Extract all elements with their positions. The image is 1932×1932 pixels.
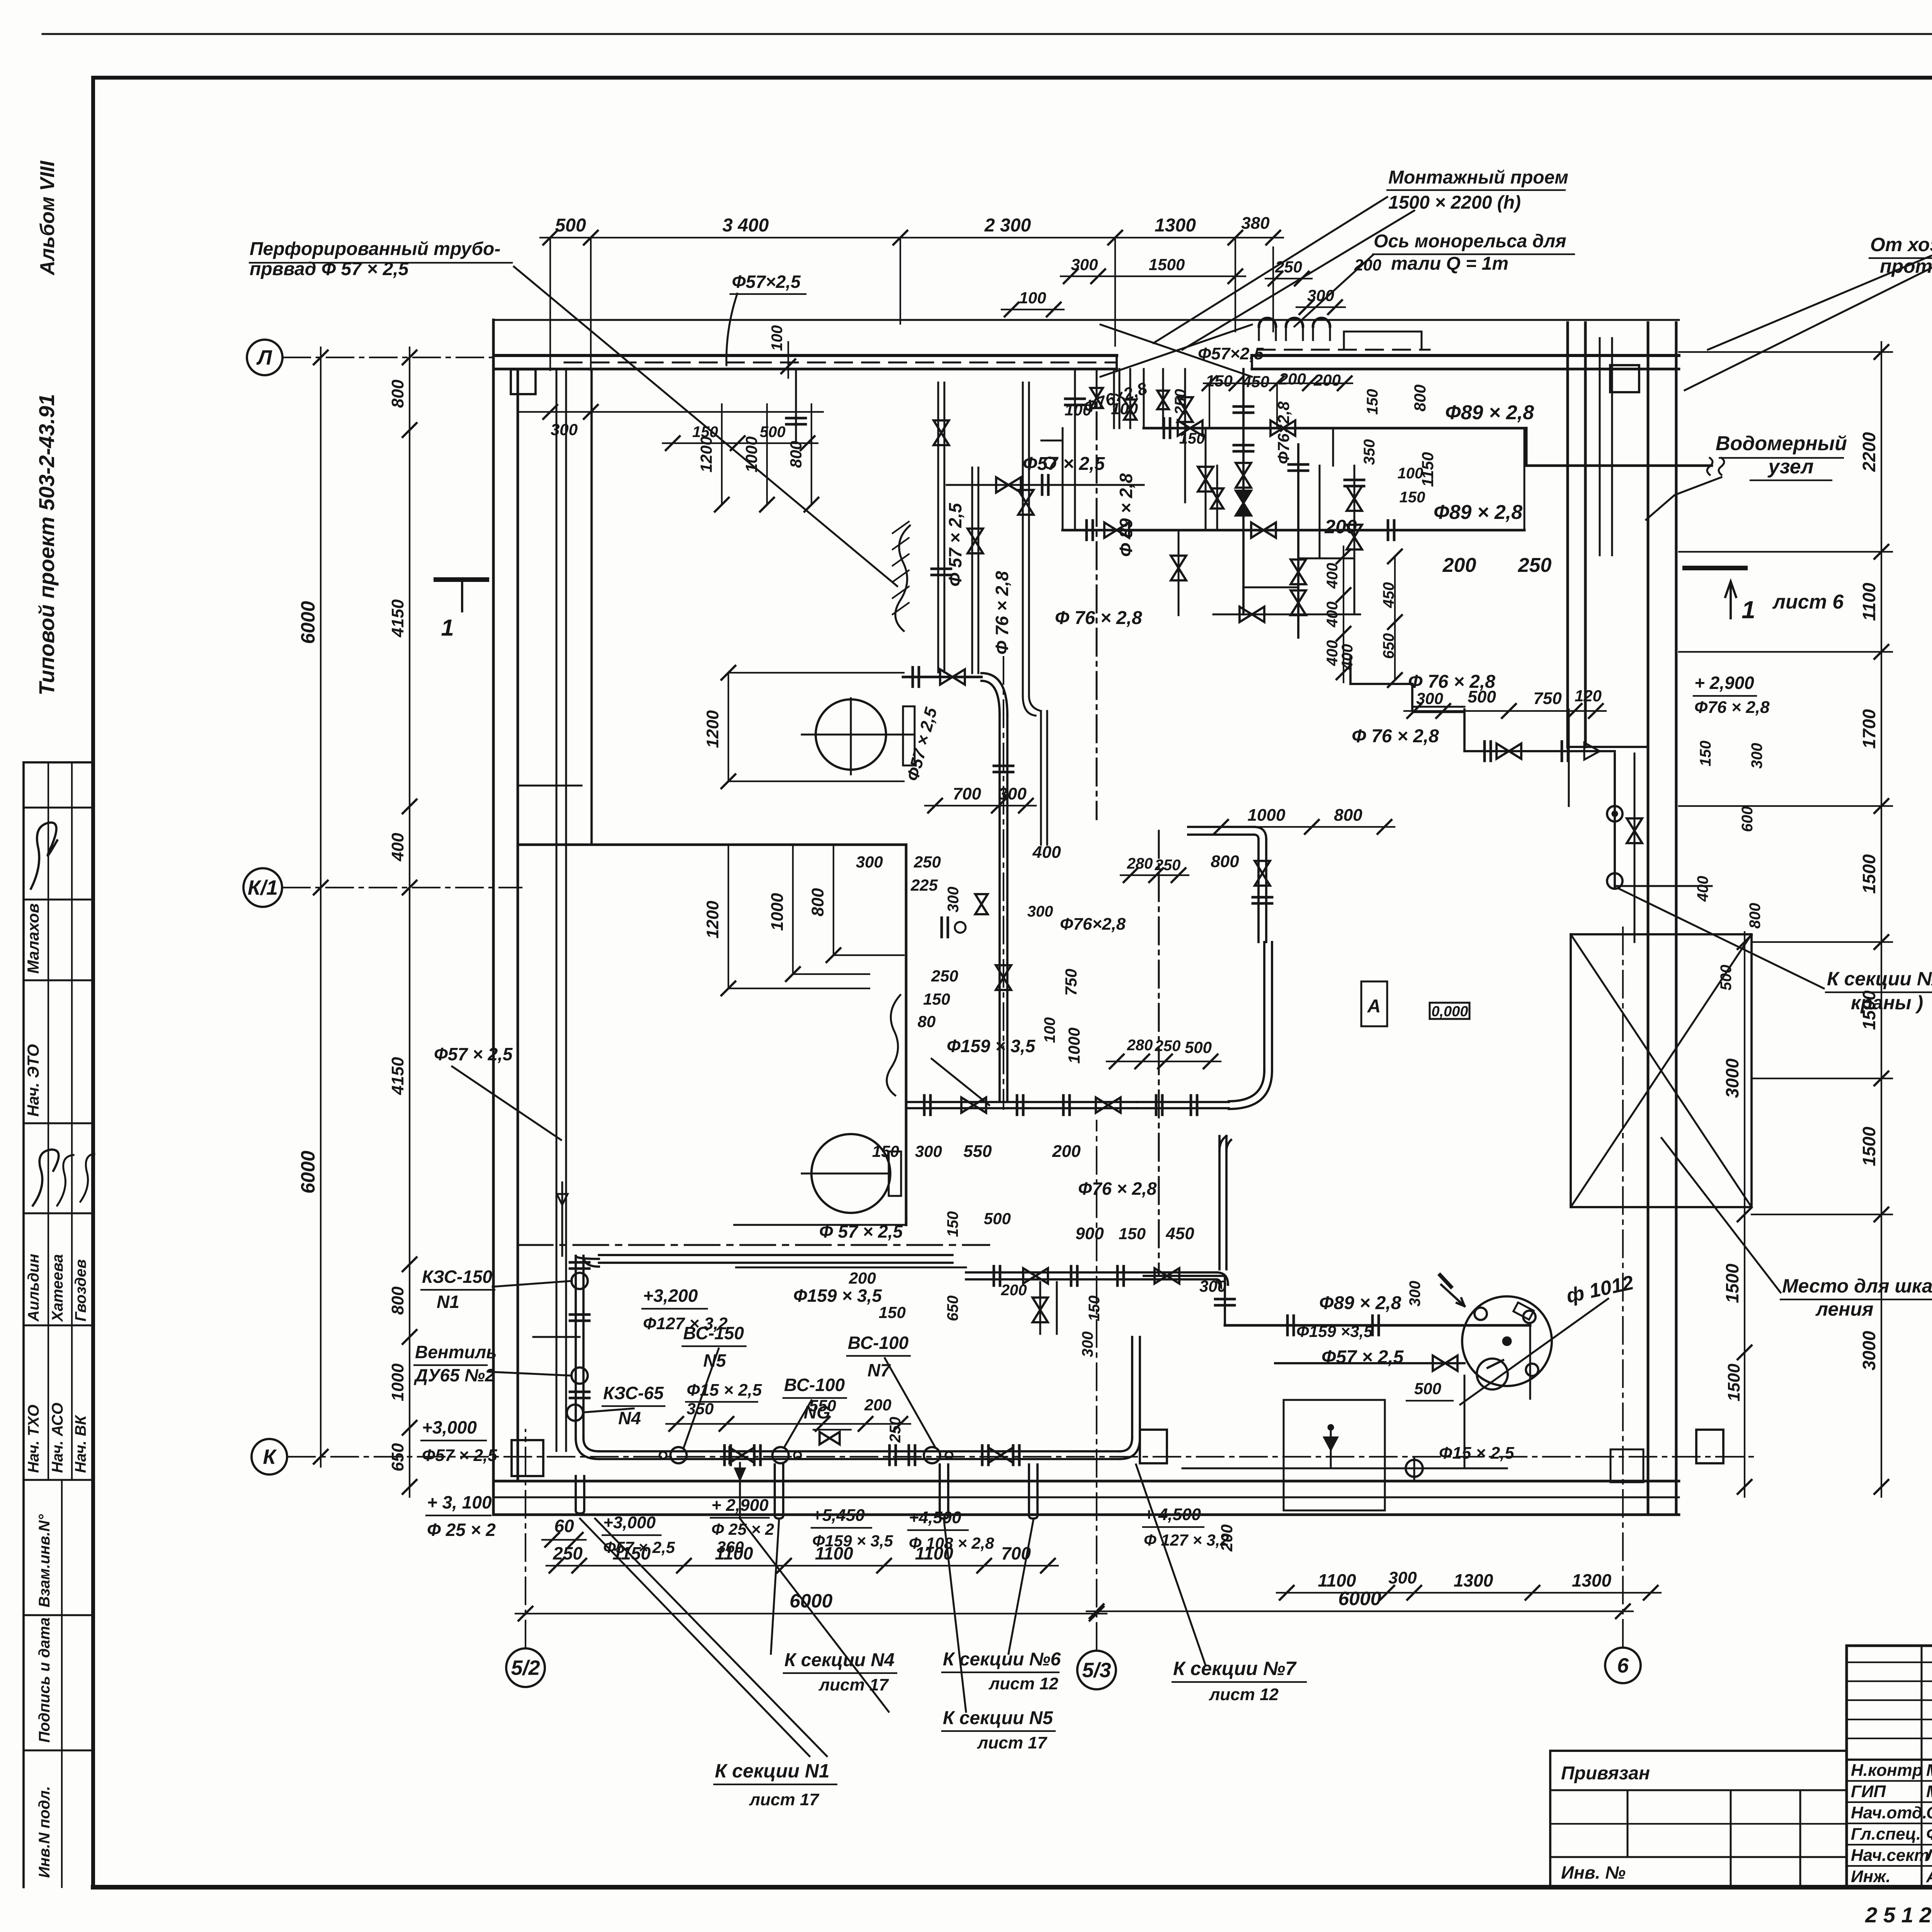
svg-text:Ф159 × 3,5: Ф159 × 3,5: [947, 1036, 1036, 1056]
svg-text:500: 500: [1718, 965, 1735, 991]
svg-text:1200: 1200: [697, 436, 715, 472]
svg-text:150: 150: [1697, 741, 1714, 767]
leader Ф57 to pipe: [726, 294, 737, 365]
valve: [996, 477, 1021, 493]
corridor risers: [1599, 338, 1601, 555]
svg-text:600: 600: [1739, 806, 1756, 832]
svg-text:Нач. ВК: Нач. ВК: [72, 1415, 89, 1473]
svg-text:200: 200: [1442, 554, 1476, 577]
svg-text:300: 300: [1199, 1277, 1226, 1295]
svg-text:300: 300: [856, 853, 883, 871]
leader ось монорельса: [1294, 255, 1373, 327]
valve: [1347, 486, 1362, 511]
svg-text:Взам.инв.N°: Взам.инв.N°: [36, 1514, 53, 1607]
svg-text:650: 650: [388, 1443, 407, 1471]
svg-text:300: 300: [1388, 1568, 1417, 1587]
svg-text:Ф 76 × 2,8: Ф 76 × 2,8: [1055, 608, 1142, 628]
svg-text:Ф 57 × 2,5: Ф 57 × 2,5: [819, 1221, 903, 1242]
svg-text:2200: 2200: [1859, 432, 1879, 472]
svg-text:Ф 76 × 2,8: Ф 76 × 2,8: [992, 571, 1012, 655]
svg-text:650: 650: [1380, 633, 1397, 659]
svg-text:80: 80: [918, 1012, 936, 1031]
svg-text:Монтажный проем: Монтажный проем: [1388, 167, 1568, 188]
valve: [1032, 1298, 1048, 1322]
svg-text:+5,450: +5,450: [812, 1506, 865, 1525]
crossed rectangle шкафы: [1571, 934, 1752, 1207]
left dimension chains: [320, 347, 321, 1467]
dim box around circle A: [728, 672, 904, 673]
перфорированный трубопровод along top wall: [565, 362, 1117, 364]
svg-text:Хатеева: Хатеева: [49, 1254, 66, 1322]
pipe Ф89 top run: [1144, 427, 1526, 430]
pipe: [1218, 1136, 1221, 1269]
монтажный проем cross: [1100, 325, 1252, 377]
svg-text:+ 3, 100: + 3, 100: [427, 1492, 492, 1512]
svg-text:узел: узел: [1767, 456, 1813, 478]
svg-text:лист 17: лист 17: [977, 1733, 1048, 1752]
svg-text:150: 150: [1206, 372, 1233, 390]
svg-text:400: 400: [1324, 640, 1341, 667]
svg-text:400: 400: [1032, 843, 1061, 862]
dim box below circle A: [728, 845, 729, 988]
bottom dimension chains: [546, 1565, 1058, 1566]
svg-text:380: 380: [1241, 214, 1270, 233]
vertical perforated pipe pair: [556, 369, 558, 1451]
mid wall водомерный узел: [1566, 323, 1569, 747]
svg-text:300: 300: [1079, 1332, 1096, 1357]
svg-text:200: 200: [1324, 516, 1357, 537]
valve: [1096, 1097, 1121, 1113]
svg-text:Водомерный: Водомерный: [1716, 432, 1847, 455]
svg-text:350: 350: [1361, 439, 1378, 465]
svg-text:К секции №8 (пожарные: К секции №8 (пожарные: [1827, 968, 1932, 990]
svg-text:250: 250: [1275, 258, 1302, 276]
signature scribbles 2: [33, 1150, 59, 1206]
valve: [1124, 400, 1136, 420]
svg-text:750: 750: [1062, 969, 1080, 996]
svg-text:К секции №7: К секции №7: [1173, 1658, 1297, 1679]
svg-text:300: 300: [551, 420, 578, 439]
svg-text:Н.контр: Н.контр: [1851, 1761, 1923, 1780]
svg-text:Ф57 × 2,5: Ф57 × 2,5: [422, 1446, 497, 1465]
pipe Ф89 bottom right: [1225, 1324, 1530, 1327]
valve: [961, 1097, 986, 1113]
svg-text:700: 700: [953, 784, 981, 803]
svg-text:1500: 1500: [1149, 255, 1185, 274]
svg-text:К/1: К/1: [248, 876, 278, 899]
valve: [1251, 522, 1276, 538]
svg-text:1000: 1000: [768, 893, 787, 931]
svg-text:ДУ65 №2: ДУ65 №2: [413, 1365, 495, 1385]
svg-text:1000: 1000: [1065, 1027, 1083, 1063]
svg-text:лист 6: лист 6: [1772, 591, 1844, 613]
svg-text:200: 200: [1052, 1142, 1081, 1161]
flow meter Ф1012: [1462, 1296, 1552, 1386]
leader ф1012: [1460, 1299, 1608, 1405]
svg-text:К секции N1: К секции N1: [715, 1760, 830, 1782]
svg-text:Ф89 × 2,8: Ф89 × 2,8: [1319, 1293, 1401, 1313]
valve: [1236, 491, 1251, 515]
leader место для шкафов: [1662, 1138, 1781, 1293]
svg-text:Ф57 × 2,5: Ф57 × 2,5: [1023, 454, 1105, 474]
svg-text:Ф76 × 2,8: Ф76 × 2,8: [1078, 1179, 1157, 1199]
left wall: [492, 320, 495, 1515]
svg-text:Альбом VIII: Альбом VIII: [36, 160, 59, 276]
valve: [1177, 397, 1193, 422]
svg-text:5/2: 5/2: [511, 1656, 540, 1679]
svg-text:Перфорированный трубо-: Перфорированный трубо-: [250, 239, 500, 259]
cross connections: [1062, 428, 1064, 530]
pipe: [971, 468, 973, 673]
svg-text:Ф57 × 2,5: Ф57 × 2,5: [1321, 1347, 1404, 1367]
svg-text:225: 225: [910, 876, 938, 894]
svg-text:Ф76×2,8: Ф76×2,8: [1060, 915, 1126, 934]
svg-text:400: 400: [1324, 563, 1341, 589]
svg-text:Мороз: Мороз: [1926, 1761, 1932, 1780]
risers near left wall: [561, 1182, 563, 1256]
valve: [1291, 560, 1306, 584]
wall pilasters: [512, 1440, 543, 1476]
zigzag to 300 500 750 row: [1411, 684, 1413, 709]
svg-text:Вентиль: Вентиль: [415, 1342, 497, 1362]
svg-text:6: 6: [1617, 1654, 1629, 1677]
title block: [1847, 1646, 1932, 1887]
right wall: [1647, 323, 1650, 1515]
valve: [1433, 1355, 1458, 1371]
svg-text:1300: 1300: [1155, 215, 1196, 236]
axis mark Л: [247, 340, 282, 375]
svg-text:1: 1: [441, 615, 454, 641]
section mark 1 right лист 6: [1685, 566, 1745, 570]
valve: [940, 669, 965, 685]
svg-text:Малахов: Малахов: [24, 903, 42, 974]
frame top: [93, 76, 1932, 80]
svg-text:550: 550: [963, 1142, 992, 1161]
elbow up at right: [1120, 1437, 1140, 1459]
pipe: [1188, 826, 1254, 828]
pipe: [937, 383, 939, 672]
riser stub to section: [576, 1476, 584, 1514]
pipe: [1040, 711, 1042, 845]
svg-text:КЗС-150: КЗС-150: [422, 1267, 492, 1287]
equipment circle B: [811, 1134, 890, 1213]
pipe: [1022, 383, 1024, 696]
svg-text:3000: 3000: [1722, 1058, 1742, 1098]
svg-text:Ф 57 × 2,5: Ф 57 × 2,5: [945, 502, 965, 587]
svg-text:100: 100: [1065, 401, 1092, 419]
svg-text:1200: 1200: [703, 710, 722, 748]
pipe: [1257, 839, 1260, 942]
svg-text:Ф57 × 2,5: Ф57 × 2,5: [603, 1538, 675, 1556]
svg-text:150: 150: [1364, 389, 1381, 415]
svg-text:Ф 89 × 2,8: Ф 89 × 2,8: [1116, 473, 1136, 557]
svg-text:120: 120: [1575, 687, 1602, 705]
svg-text:Подпись и дата: Подпись и дата: [36, 1617, 53, 1743]
riser stub to section: [940, 1464, 948, 1519]
valve: [988, 1447, 1013, 1463]
svg-text:Ф 25 × 2: Ф 25 × 2: [427, 1520, 496, 1540]
dim row 350 550 200: [666, 1423, 910, 1425]
svg-text:300: 300: [945, 887, 962, 913]
svg-text:4150: 4150: [388, 599, 407, 638]
svg-text:Осовский: Осовский: [1926, 1803, 1932, 1822]
svg-text:150: 150: [1400, 489, 1425, 506]
svg-text:150: 150: [1119, 1225, 1146, 1243]
svg-text:500: 500: [1468, 687, 1496, 706]
pipe: [998, 715, 1001, 1100]
dim labels top-left: [518, 411, 823, 413]
valve: [1155, 1268, 1179, 1284]
svg-text:1500: 1500: [1725, 1364, 1743, 1401]
svg-text:Ф159 × 3,5: Ф159 × 3,5: [812, 1532, 893, 1550]
svg-text:800: 800: [1334, 806, 1362, 825]
svg-text:Аванесова: Аванесова: [1926, 1867, 1932, 1886]
svg-text:250: 250: [913, 853, 941, 871]
svg-text:1000: 1000: [742, 436, 760, 472]
svg-text:650: 650: [944, 1296, 961, 1321]
equipment circle A: [816, 699, 886, 770]
svg-text:60: 60: [554, 1516, 574, 1536]
svg-text:750: 750: [1533, 689, 1562, 708]
svg-text:Гвоздев: Гвоздев: [72, 1259, 89, 1321]
riser stub to section: [775, 1464, 783, 1519]
extra cluster symbols: [1065, 398, 1085, 400]
svg-text:Л: Л: [256, 346, 272, 369]
svg-text:Ф 76 × 2,8: Ф 76 × 2,8: [1352, 726, 1439, 747]
svg-text:Меленчук: Меленчук: [1926, 1782, 1932, 1801]
hatched cloud: [895, 526, 910, 631]
svg-text:500: 500: [760, 423, 786, 440]
svg-text:800: 800: [388, 379, 407, 408]
svg-text:800: 800: [1211, 852, 1239, 871]
valve: [730, 1447, 754, 1463]
right dimension chains: [1881, 342, 1882, 1497]
valve: [1240, 607, 1264, 622]
valve: [1255, 861, 1270, 886]
valve: [1497, 743, 1521, 759]
svg-text:6000: 6000: [297, 601, 319, 644]
pipe: [1113, 369, 1115, 428]
svg-text:прввад Ф 57 × 2,5: прввад Ф 57 × 2,5: [250, 259, 409, 279]
svg-text:500: 500: [555, 215, 586, 236]
svg-text:150: 150: [944, 1211, 961, 1237]
svg-text:N1: N1: [437, 1292, 459, 1312]
svg-text:ВС-100: ВС-100: [784, 1375, 845, 1395]
monorail hooks: [1259, 318, 1276, 327]
svg-text:100: 100: [1041, 1017, 1058, 1043]
svg-text:К секции №6: К секции №6: [943, 1649, 1061, 1670]
leaders от хоз водопровода: [1708, 247, 1932, 350]
svg-text:2 300: 2 300: [984, 215, 1031, 236]
valve: [1236, 463, 1251, 488]
pipe: [575, 1256, 577, 1438]
svg-text:800: 800: [1411, 384, 1429, 412]
svg-text:К: К: [263, 1445, 277, 1468]
svg-text:280: 280: [1127, 855, 1153, 872]
svg-text:400: 400: [388, 833, 407, 862]
valve: [1347, 525, 1362, 549]
svg-text:280: 280: [1127, 1037, 1153, 1054]
valve: [1291, 590, 1306, 615]
valve: [934, 420, 949, 445]
frame left: [91, 78, 95, 1887]
svg-text:250: 250: [1155, 857, 1181, 874]
svg-text:100: 100: [1019, 289, 1046, 307]
svg-text:800: 800: [1747, 903, 1764, 929]
svg-text:Инж.: Инж.: [1851, 1867, 1891, 1886]
svg-text:300: 300: [915, 1142, 942, 1160]
left stamp tables: [24, 762, 93, 1887]
svg-text:450: 450: [1165, 1224, 1194, 1243]
svg-text:3000: 3000: [1859, 1331, 1879, 1371]
svg-text:100: 100: [1111, 400, 1138, 418]
top dimension chain: [540, 237, 1283, 238]
svg-text:Ф15 × 2,5: Ф15 × 2,5: [1439, 1444, 1514, 1463]
dim rows pump room right: [925, 805, 1036, 806]
leader к секции №8: [1619, 889, 1824, 988]
svg-text:Инв.N подл.: Инв.N подл.: [36, 1786, 53, 1878]
svg-text:6000: 6000: [1338, 1588, 1381, 1609]
svg-text:Ф 127 × 3,2: Ф 127 × 3,2: [1144, 1531, 1229, 1549]
pump room walls: [518, 785, 582, 787]
svg-text:+ 4,500: + 4,500: [1144, 1505, 1201, 1524]
svg-text:От хоз. производственного: От хоз. производственного: [1870, 234, 1932, 255]
svg-text:150: 150: [1086, 1296, 1103, 1321]
thin run Ф57 center: [736, 1267, 966, 1269]
svg-text:250: 250: [1155, 1037, 1181, 1054]
valve: [968, 529, 983, 553]
svg-text:800: 800: [808, 888, 827, 917]
svg-text:лист 17: лист 17: [749, 1790, 820, 1809]
svg-text:1200: 1200: [703, 901, 722, 939]
svg-text:КЗС-65: КЗС-65: [603, 1383, 664, 1403]
valve: [996, 965, 1011, 990]
svg-text:Место для шкафов эл. управ-: Место для шкафов эл. управ-: [1782, 1275, 1932, 1297]
svg-text:1700: 1700: [1859, 709, 1879, 749]
svg-text:1000: 1000: [1248, 806, 1286, 825]
valve: [975, 894, 988, 914]
svg-text:Типовой проект 503-2-43.91: Типовой проект 503-2-43.91: [34, 394, 59, 696]
water meter ВС devices: [670, 1447, 687, 1463]
svg-text:1100: 1100: [1859, 583, 1879, 621]
svg-text:6000: 6000: [789, 1590, 832, 1612]
svg-text:100: 100: [1398, 465, 1423, 482]
svg-text:4150: 4150: [388, 1057, 407, 1095]
svg-text:Ф89 × 2,8: Ф89 × 2,8: [1445, 401, 1534, 424]
svg-text:К секции N5: К секции N5: [943, 1708, 1053, 1728]
monorail dashed box: [1258, 349, 1430, 351]
svg-text:Ф76 × 2,8: Ф76 × 2,8: [1694, 698, 1770, 717]
valve: [1198, 467, 1213, 492]
svg-text:1: 1: [1742, 596, 1755, 624]
svg-text:1300: 1300: [1572, 1570, 1612, 1590]
svg-text:Аильдин: Аильдин: [25, 1254, 42, 1322]
svg-text:500: 500: [984, 1209, 1011, 1228]
frame bottom: [93, 1885, 1932, 1889]
svg-text:150: 150: [872, 1142, 899, 1160]
svg-text:Нач. ЭТО: Нач. ЭТО: [24, 1044, 42, 1117]
axis mark К: [252, 1439, 287, 1475]
valve: [1157, 391, 1169, 409]
svg-text:250: 250: [931, 967, 958, 985]
top wall: [495, 319, 1679, 321]
svg-text:лист 12: лист 12: [988, 1674, 1059, 1693]
tick line 150 450 200 200: [1204, 383, 1352, 384]
svg-text:лист 17: лист 17: [818, 1675, 889, 1694]
КЗС devices on vertical pipe: [571, 1273, 588, 1289]
pipe: [1412, 706, 1464, 708]
svg-text:500: 500: [1185, 1038, 1212, 1056]
svg-text:150: 150: [1179, 430, 1205, 447]
svg-text:Ф89 × 2,8: Ф89 × 2,8: [1434, 501, 1522, 524]
leader водомерный узел: [1646, 477, 1721, 520]
pipe: [599, 1450, 1120, 1452]
svg-text:Ф57×2,5: Ф57×2,5: [732, 272, 801, 292]
svg-text:400: 400: [1339, 644, 1356, 670]
svg-text:ВС-100: ВС-100: [848, 1333, 909, 1353]
svg-text:К секции N4: К секции N4: [784, 1650, 895, 1670]
svg-text:300: 300: [1071, 255, 1098, 274]
pipe: [1137, 1101, 1229, 1103]
leader Ф57 bottom left: [452, 1066, 561, 1140]
svg-text:Ф 108 × 2,8: Ф 108 × 2,8: [909, 1534, 994, 1552]
svg-text:150: 150: [879, 1303, 906, 1321]
svg-text:Фомина: Фомина: [1926, 1825, 1932, 1844]
svg-text:Ф 25 × 2: Ф 25 × 2: [711, 1520, 774, 1538]
leader перфорированный: [514, 267, 897, 586]
svg-text:450: 450: [1380, 582, 1397, 609]
svg-text:Ф57 × 2,5: Ф57 × 2,5: [434, 1044, 513, 1064]
valve: [1171, 556, 1186, 580]
svg-text:200: 200: [1313, 371, 1341, 389]
svg-text:Нач. АСО: Нач. АСО: [49, 1403, 66, 1473]
svg-text:300: 300: [1748, 743, 1765, 769]
sheet top edge: [43, 33, 1932, 35]
svg-text:450: 450: [1242, 372, 1269, 391]
svg-text:+3,000: +3,000: [422, 1417, 477, 1437]
svg-text:1300: 1300: [1454, 1570, 1493, 1590]
svg-text:противопожарного водопровода: противопожарного водопровода: [1880, 255, 1932, 277]
svg-text:250: 250: [887, 1417, 904, 1443]
svg-text:200: 200: [849, 1269, 876, 1287]
svg-text:1000: 1000: [388, 1363, 407, 1401]
axis mark 6: [1605, 1648, 1641, 1683]
svg-text:1500: 1500: [1859, 1126, 1879, 1166]
svg-text:400: 400: [1694, 876, 1711, 902]
svg-text:300: 300: [1406, 1281, 1423, 1307]
svg-text:Ф57×2,5: Ф57×2,5: [1198, 344, 1264, 363]
pipe: [1263, 942, 1265, 1070]
svg-text:ления: ления: [1815, 1298, 1873, 1320]
svg-text:тали Q = 1т: тали Q = 1т: [1391, 253, 1509, 274]
svg-text:+ 2,900: + 2,900: [1694, 673, 1754, 693]
leader монтажный проем: [1153, 197, 1387, 343]
привязан table: [1550, 1751, 1847, 1887]
svg-text:200: 200: [864, 1396, 891, 1414]
pipe: [599, 1254, 952, 1256]
valve: [1211, 488, 1223, 509]
svg-text:300: 300: [998, 784, 1027, 803]
pipe Ф15: [1182, 1468, 1507, 1469]
svg-text:250: 250: [1172, 389, 1189, 415]
section mark 1 left: [436, 577, 487, 582]
svg-text:800: 800: [388, 1286, 407, 1315]
svg-text:0,000: 0,000: [1431, 1003, 1468, 1020]
svg-text:2 5 1 2 2 - 0 8: 2 5 1 2 2 - 0 8: [1865, 1903, 1932, 1927]
svg-text:ВС-150: ВС-150: [683, 1323, 744, 1343]
pipe: [906, 1101, 1137, 1103]
svg-text:А: А: [1367, 996, 1381, 1017]
